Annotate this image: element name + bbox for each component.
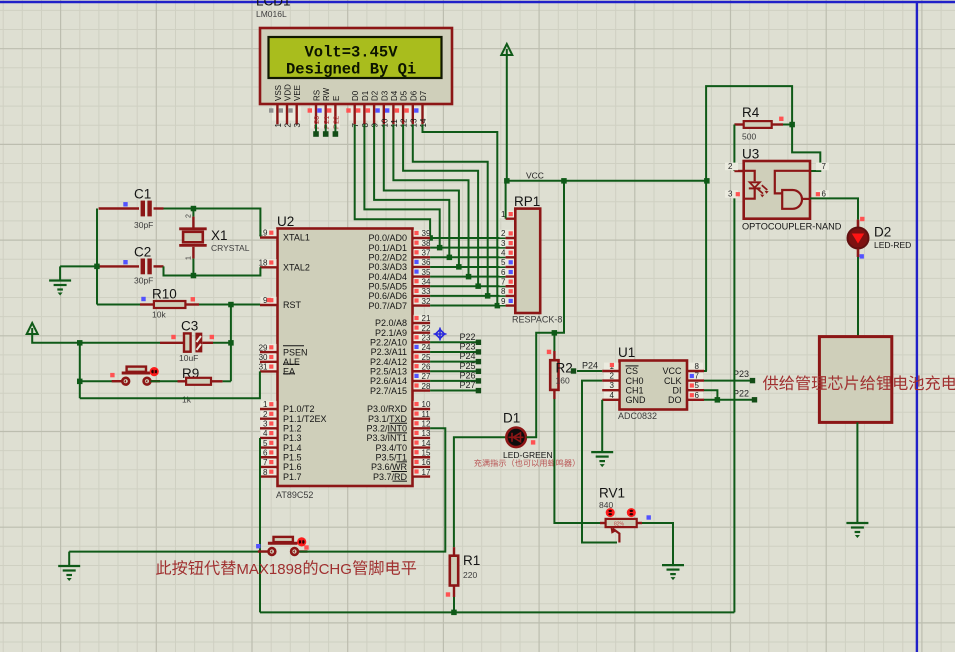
- wire P3.2 D1 R1 net: [454, 437, 506, 547]
- svg-text:34: 34: [422, 277, 431, 286]
- wire U1 CS to P24: [577, 370, 602, 372]
- adc U1 ADC0832 body: [620, 361, 688, 410]
- svg-text:6: 6: [695, 391, 700, 400]
- svg-text:Volt=3.45V: Volt=3.45V: [305, 44, 399, 62]
- U3 pin number highlights: [725, 163, 738, 171]
- wire RS RW E terminal drops: [315, 124, 317, 131]
- svg-text:7: 7: [822, 162, 827, 171]
- svg-text:C1: C1: [134, 187, 151, 202]
- resistor R9: [178, 380, 187, 382]
- wire U3 pin6 to D2: [810, 198, 858, 219]
- svg-text:33: 33: [422, 287, 431, 296]
- svg-text:21: 21: [422, 314, 431, 323]
- svg-text:4: 4: [263, 429, 268, 438]
- annotation chinese bottom: [156, 560, 236, 575]
- svg-text:CLK: CLK: [664, 376, 682, 386]
- capacitor C1: [99, 207, 139, 209]
- svg-text:P0.2/AD2: P0.2/AD2: [368, 253, 407, 263]
- svg-text:D5: D5: [400, 90, 409, 101]
- wire P0.4 to RP1 pin 6: [430, 276, 506, 278]
- cursor crosshair: [434, 328, 447, 341]
- svg-text:D3: D3: [380, 90, 389, 101]
- wire bus D5: [403, 124, 478, 286]
- svg-text:U2: U2: [277, 214, 294, 229]
- svg-text:VCC: VCC: [662, 366, 682, 376]
- svg-text:30pF: 30pF: [134, 220, 153, 230]
- wire U3 pin3 down to bus: [733, 198, 735, 612]
- resistor R1: [453, 547, 455, 556]
- wire R2 bottom to RV1: [553, 390, 555, 399]
- ground button row left: [68, 552, 70, 566]
- junction bus D0 to P0.0: [427, 235, 433, 241]
- svg-text:D1: D1: [361, 90, 370, 101]
- svg-text:LM016L: LM016L: [256, 9, 287, 19]
- junction bus D4 to P0.4: [466, 274, 472, 280]
- wire P2.6 to P26 label: [430, 380, 476, 382]
- wire bus D1: [364, 124, 439, 248]
- svg-text:2: 2: [501, 229, 506, 238]
- svg-text:R10: R10: [152, 287, 177, 302]
- svg-text:D0: D0: [351, 90, 360, 101]
- wire P0.6 to RP1 pin 8: [430, 295, 506, 297]
- wire D1 right up to R2 junction: [526, 181, 564, 438]
- svg-text:GND: GND: [626, 395, 647, 405]
- svg-text:10uF: 10uF: [179, 353, 198, 363]
- svg-text:DO: DO: [668, 395, 682, 405]
- svg-text:1k: 1k: [182, 395, 192, 405]
- svg-text:P0.6/AD6: P0.6/AD6: [368, 291, 407, 301]
- svg-text:12: 12: [422, 420, 431, 429]
- svg-text:AT89C52: AT89C52: [276, 490, 313, 500]
- svg-text:7: 7: [501, 277, 506, 286]
- svg-text:RV1: RV1: [599, 486, 625, 501]
- LCD display LCD1 LM016L body: [260, 28, 452, 104]
- wire C2 right to XTAL2: [164, 266, 261, 275]
- svg-text:P0.5/AD5: P0.5/AD5: [368, 281, 407, 291]
- svg-text:31: 31: [259, 363, 268, 372]
- svg-text:VSS: VSS: [274, 85, 283, 101]
- svg-text:82%: 82%: [614, 522, 625, 528]
- junction bus D5 to P0.5: [475, 283, 481, 289]
- wire R2 top: [553, 333, 555, 351]
- wire R10 right to RST: [185, 303, 199, 305]
- svg-text:5: 5: [501, 258, 506, 267]
- junction bus D3 to P0.3: [456, 264, 462, 270]
- svg-text:24: 24: [422, 343, 431, 352]
- svg-text:C3: C3: [181, 319, 198, 334]
- svg-text:P2.0/A8: P2.0/A8: [375, 318, 407, 328]
- svg-text:36: 36: [422, 258, 431, 267]
- wire bus D3: [384, 124, 459, 267]
- svg-text:4: 4: [501, 249, 506, 258]
- wire bus D0: [355, 124, 430, 238]
- svg-text:1: 1: [186, 256, 193, 260]
- svg-text:P0.4/AD4: P0.4/AD4: [368, 272, 407, 282]
- svg-text:P3.6/WR: P3.6/WR: [371, 462, 408, 472]
- LCD pin endpoint squares: [269, 108, 273, 112]
- wire P2.5 to P25 label: [430, 370, 476, 372]
- wire P0.1 to RP1 pin 3: [430, 247, 506, 249]
- svg-text:LCD1: LCD1: [256, 0, 291, 9]
- LED D1 LED-GREEN: [506, 428, 526, 448]
- svg-text:DI: DI: [673, 385, 682, 395]
- U1 pin stubs: [602, 371, 704, 400]
- junction VCC R2 branch: [561, 178, 567, 184]
- wire P0.2 to RP1 pin 4: [430, 256, 506, 258]
- svg-text:29: 29: [259, 343, 268, 352]
- svg-text:D4: D4: [390, 90, 399, 101]
- junction arrow row: [77, 340, 83, 346]
- svg-text:6: 6: [822, 190, 827, 199]
- svg-text:P1.5: P1.5: [283, 452, 302, 462]
- U1 pin number highlights: [604, 363, 619, 371]
- wire R4 right: [772, 123, 783, 125]
- svg-text:26: 26: [422, 362, 431, 371]
- svg-text:500: 500: [742, 132, 756, 142]
- svg-text:15: 15: [422, 448, 431, 457]
- RV1 wiper: [613, 529, 620, 543]
- svg-text:P3.3/INT1: P3.3/INT1: [366, 433, 407, 443]
- svg-text:P2.7/A15: P2.7/A15: [370, 386, 407, 396]
- svg-text:P2.4/A12: P2.4/A12: [370, 357, 407, 367]
- svg-text:RS: RS: [313, 90, 322, 101]
- button SW2: [268, 542, 298, 545]
- svg-text:17: 17: [422, 468, 431, 477]
- svg-text:5: 5: [263, 439, 268, 448]
- svg-text:2: 2: [284, 123, 293, 128]
- junction button row: [77, 379, 83, 385]
- sheet border blue top: [0, 1, 955, 3]
- svg-text:P24: P24: [582, 361, 598, 371]
- U3 inner NAND gate: [775, 171, 810, 194]
- svg-text:U1: U1: [618, 345, 635, 360]
- svg-text:2: 2: [263, 410, 268, 419]
- svg-text:X1: X1: [211, 228, 228, 243]
- crystal X1: [192, 209, 194, 217]
- svg-text:2: 2: [186, 214, 193, 218]
- svg-text:P2.6/A14: P2.6/A14: [370, 376, 407, 386]
- svg-text:P2.5/A13: P2.5/A13: [370, 366, 407, 376]
- wire R4 junction to U3 pin7: [792, 125, 820, 172]
- svg-text:PSEN: PSEN: [283, 347, 308, 357]
- wire P0.5 to RP1 pin 7: [430, 285, 506, 287]
- LCD pin stubs 1-14: [277, 104, 422, 124]
- junction VCC arrow: [504, 178, 510, 184]
- svg-text:32: 32: [422, 297, 431, 306]
- U3 inner LED symbol: [744, 171, 755, 182]
- svg-text:39: 39: [422, 229, 431, 238]
- svg-text:P25: P25: [460, 361, 476, 371]
- svg-text:EA: EA: [283, 367, 295, 377]
- RP1 pin stubs: [506, 219, 516, 306]
- ground below C2: [59, 266, 61, 280]
- svg-text:P23: P23: [733, 369, 749, 379]
- svg-text:30pF: 30pF: [134, 276, 153, 286]
- svg-text:P3.4/T0: P3.4/T0: [375, 443, 407, 453]
- terminal P23: [750, 378, 755, 383]
- U2 right pin stubs: [413, 238, 431, 477]
- svg-text:1: 1: [263, 400, 268, 409]
- capacitor C2: [97, 265, 139, 267]
- svg-text:8: 8: [501, 287, 506, 296]
- wire P2.7 to P27 label: [430, 390, 476, 392]
- wire C3 right to RST net: [213, 342, 231, 344]
- svg-text:220: 220: [463, 570, 477, 580]
- svg-text:P2.2/A10: P2.2/A10: [370, 338, 407, 348]
- wire RV1 right to ground: [637, 522, 642, 524]
- svg-text:P1.3: P1.3: [283, 433, 302, 443]
- wire box to ground: [856, 422, 858, 523]
- svg-text:10k: 10k: [152, 310, 166, 320]
- junction VCC U1 branch: [704, 178, 710, 184]
- svg-text:RST: RST: [283, 300, 302, 310]
- wire C1 to XTAL1 corner: [164, 209, 261, 237]
- svg-text:P23: P23: [460, 341, 476, 351]
- wire EA net: [80, 371, 260, 398]
- ground U1: [601, 451, 603, 453]
- annotation chinese right: [763, 375, 955, 390]
- junction C3 RST: [228, 340, 234, 346]
- svg-text:CH1: CH1: [626, 385, 644, 395]
- junction bus D6 to P0.6: [485, 293, 491, 299]
- svg-text:XTAL1: XTAL1: [283, 233, 310, 243]
- resistor pack RP1 RESPACK-8 body: [515, 209, 540, 313]
- wire button to R9: [151, 380, 178, 382]
- wire P0.0 to RP1 pin 2: [430, 237, 506, 239]
- wire U1 VCC up: [705, 181, 707, 371]
- wire R4 left to U3 pin2: [734, 123, 743, 125]
- junction DI DO: [715, 397, 721, 403]
- svg-text:D2: D2: [874, 225, 891, 240]
- svg-text:28: 28: [422, 382, 431, 391]
- potentiometer RV1 body: [600, 522, 606, 524]
- svg-text:RP1: RP1: [514, 194, 540, 209]
- wire U1 DO to P22: [704, 399, 753, 401]
- svg-text:160: 160: [556, 376, 570, 386]
- svg-text:D7: D7: [419, 90, 428, 101]
- wire VCC arrow down: [506, 55, 508, 181]
- svg-text:P3.7/RD: P3.7/RD: [373, 472, 408, 482]
- junction C2 ground: [94, 264, 100, 270]
- svg-text:11: 11: [422, 410, 431, 419]
- svg-text:P22: P22: [460, 332, 476, 342]
- svg-text:R2: R2: [556, 361, 573, 376]
- svg-text:XTAL2: XTAL2: [283, 263, 310, 273]
- microcontroller U2 AT89C52 body: [278, 229, 413, 487]
- svg-text:P27: P27: [460, 380, 476, 390]
- svg-text:LED-GREEN: LED-GREEN: [503, 450, 553, 460]
- svg-text:8: 8: [695, 362, 700, 371]
- svg-text:7: 7: [263, 458, 268, 467]
- svg-text:P3.0/RXD: P3.0/RXD: [367, 404, 408, 414]
- svg-text:10: 10: [422, 400, 431, 409]
- svg-text:22: 22: [422, 324, 431, 333]
- U2 pin number highlights: [261, 229, 277, 237]
- LED D2 LED-RED: [857, 220, 860, 228]
- svg-text:P2.3/A11: P2.3/A11: [371, 347, 407, 357]
- junction C2 X1 bottom: [191, 273, 197, 279]
- svg-text:P1.4: P1.4: [283, 443, 302, 453]
- svg-text:P3.5/T1: P3.5/T1: [375, 452, 407, 462]
- svg-text:P0.1/AD1: P0.1/AD1: [368, 243, 407, 253]
- svg-text:2: 2: [610, 372, 615, 381]
- resistor R10: [154, 301, 186, 308]
- wire D2 to module box: [857, 257, 859, 337]
- ground module: [856, 522, 858, 524]
- svg-text:4: 4: [610, 391, 615, 400]
- svg-text:P22: P22: [733, 389, 749, 399]
- svg-text:3: 3: [263, 420, 268, 429]
- svg-text:37: 37: [422, 249, 431, 258]
- svg-text:P0.7/AD7: P0.7/AD7: [368, 301, 407, 311]
- svg-text:VEE: VEE: [293, 85, 302, 101]
- wire P2.4 to P24 label: [430, 361, 476, 363]
- wire P0.3 to RP1 pin 5: [430, 266, 506, 268]
- junction R10 RST C3: [228, 302, 234, 308]
- svg-text:D1: D1: [503, 411, 520, 426]
- svg-text:P3.2/INT0: P3.2/INT0: [366, 424, 407, 434]
- svg-text:P1.0/T2: P1.0/T2: [283, 404, 315, 414]
- svg-text:VCC: VCC: [526, 171, 544, 181]
- wire button2 to P3.2: [299, 428, 445, 551]
- svg-text:2: 2: [728, 162, 733, 171]
- wire VCC top loop: [706, 86, 792, 181]
- svg-text:1: 1: [274, 123, 283, 128]
- svg-text:6: 6: [501, 268, 506, 277]
- svg-text:8: 8: [263, 468, 268, 477]
- D1 annotation red: [474, 459, 574, 467]
- svg-text:P0.0/AD0: P0.0/AD0: [368, 233, 407, 243]
- wire VCC vertical to RP1 pin1: [505, 181, 507, 219]
- svg-text:MAX1898: MAX1898: [236, 561, 302, 578]
- power arrow left: [27, 323, 38, 334]
- wire U1 GND to ground: [601, 400, 603, 452]
- wire button row: [80, 380, 124, 382]
- junction R4 right: [789, 122, 795, 128]
- svg-text:P1.1/T2EX: P1.1/T2EX: [283, 414, 327, 424]
- svg-text:23: 23: [422, 334, 431, 343]
- wire R1 bottom: [453, 597, 455, 612]
- svg-text:D6: D6: [409, 90, 418, 101]
- LCD pin number highlights: [272, 107, 282, 121]
- wire P1.3 down: [259, 438, 261, 612]
- svg-text:Designed By Qi: Designed By Qi: [286, 61, 416, 79]
- svg-text:RW: RW: [322, 87, 331, 101]
- svg-text:ALE: ALE: [283, 357, 300, 367]
- svg-text:CH0: CH0: [626, 376, 644, 386]
- button SW1: [122, 372, 150, 375]
- svg-text:E: E: [332, 96, 341, 101]
- svg-text:27: 27: [422, 372, 431, 381]
- U2 left pin stubs: [260, 238, 278, 477]
- svg-text:6: 6: [263, 448, 268, 457]
- junction R1 bus: [451, 610, 457, 616]
- junction bus D1 to P0.1: [437, 245, 443, 251]
- wire U1 CH0 to RV1 wiper: [582, 381, 617, 543]
- wire C1 C2 left vertical: [96, 209, 98, 305]
- resistor R4: [744, 121, 772, 128]
- wire to ground left: [60, 265, 97, 267]
- wire bus D2: [374, 124, 449, 257]
- junction R2 top: [552, 330, 558, 336]
- svg-text:5: 5: [695, 381, 700, 390]
- svg-text:RESPACK-8: RESPACK-8: [512, 315, 562, 325]
- svg-text:35: 35: [422, 268, 431, 277]
- svg-text:ADC0832: ADC0832: [618, 411, 657, 421]
- wire ground to button2: [69, 551, 269, 553]
- svg-text:P1.6: P1.6: [283, 462, 302, 472]
- wire U1 CLK to P23: [704, 380, 751, 382]
- svg-text:P24: P24: [460, 351, 476, 361]
- wire bus D4: [393, 124, 468, 276]
- svg-text:7: 7: [695, 372, 700, 381]
- junction bus D7 to P0.7: [495, 303, 501, 309]
- svg-text:30: 30: [259, 353, 268, 362]
- svg-text:3: 3: [501, 239, 506, 248]
- svg-text:CS: CS: [626, 366, 639, 376]
- wire R10 left: [97, 304, 140, 306]
- svg-text:3: 3: [728, 190, 733, 199]
- svg-text:9: 9: [501, 297, 506, 306]
- wire bottom bus: [260, 611, 734, 613]
- svg-text:38: 38: [422, 239, 431, 248]
- svg-text:25: 25: [422, 353, 431, 362]
- svg-text:14: 14: [422, 439, 431, 448]
- svg-text:P1.7: P1.7: [283, 472, 302, 482]
- wire P0.7 to RP1 pin 9: [430, 305, 506, 307]
- svg-text:R1: R1: [463, 553, 480, 568]
- sheet border blue right: [916, 2, 918, 652]
- terminal P22: [752, 397, 757, 402]
- resistor R2: [550, 360, 558, 390]
- svg-text:VDD: VDD: [284, 84, 293, 101]
- svg-text:13: 13: [422, 429, 431, 438]
- svg-text:C2: C2: [134, 245, 151, 260]
- svg-text:18: 18: [259, 259, 268, 268]
- wire P2.2 to P22 label: [430, 341, 476, 343]
- charger module box: [819, 337, 891, 423]
- U3 emission arrows: [758, 185, 768, 193]
- power terminal VCC arrow top: [501, 44, 512, 55]
- svg-text:P26: P26: [460, 370, 476, 380]
- RP1 pin number highlights: [500, 211, 515, 219]
- wire RST vertical: [230, 305, 232, 382]
- svg-text:16: 16: [422, 458, 431, 467]
- svg-text:U3: U3: [742, 147, 759, 162]
- junction bus D2 to P0.2: [447, 255, 453, 261]
- wire U1 DI join DO: [704, 390, 717, 400]
- svg-text:P0.3/AD3: P0.3/AD3: [368, 262, 407, 272]
- svg-text:D2: D2: [371, 90, 380, 101]
- wire bus D7: [423, 124, 498, 305]
- svg-text:P3.1/TXD: P3.1/TXD: [368, 414, 408, 424]
- svg-text:P2.1/A9: P2.1/A9: [375, 328, 407, 338]
- svg-text:CHG: CHG: [319, 561, 352, 578]
- wire bus D6: [413, 124, 488, 296]
- junction C1 X1 top: [191, 206, 197, 212]
- wire down to button row: [79, 343, 81, 398]
- svg-text:3: 3: [293, 123, 302, 128]
- svg-text:LED-RED: LED-RED: [874, 240, 911, 250]
- wire arrow to C3 row: [32, 334, 160, 343]
- svg-text:P1.2: P1.2: [283, 424, 302, 434]
- svg-text:OPTOCOUPLER-NAND: OPTOCOUPLER-NAND: [742, 222, 842, 232]
- wire R9 right up: [223, 380, 231, 382]
- wire P2.3 to P23 label: [430, 351, 476, 353]
- terminal P24: [571, 368, 576, 373]
- capacitor C3 polarized: [160, 342, 184, 344]
- LCD screen: [269, 37, 442, 78]
